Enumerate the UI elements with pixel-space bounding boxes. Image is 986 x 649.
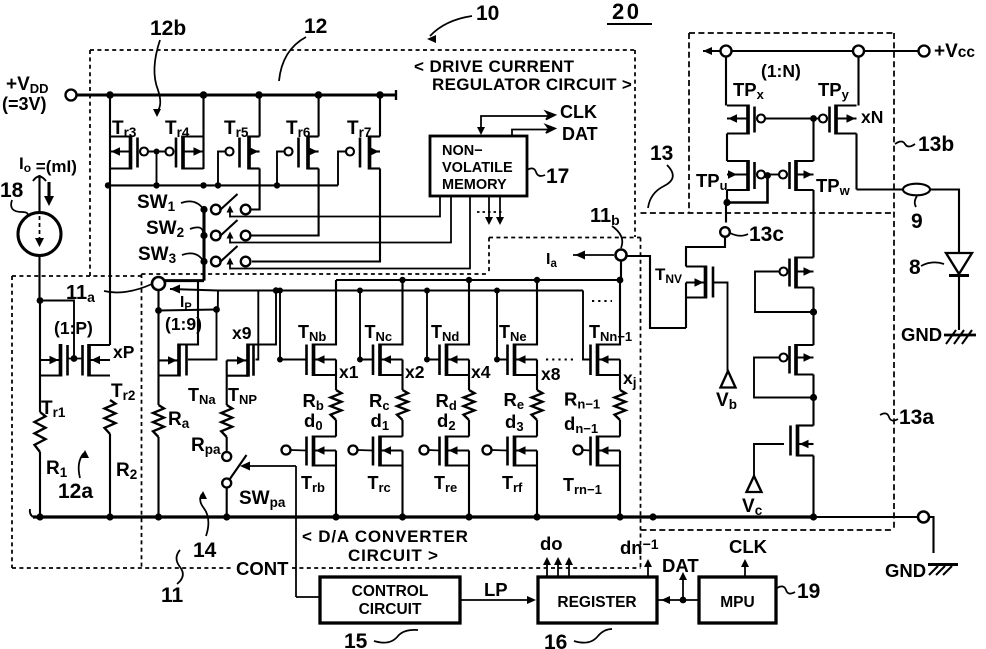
svg-text:11: 11 [161,584,184,607]
wire diode to ground [958,277,960,330]
svg-text:dn−1: dn−1 [564,413,598,436]
wire R2 to bus [109,434,111,517]
svg-text:dn−1: dn−1 [620,536,659,558]
wire to ground [929,517,934,553]
svg-text:Trn−1: Trn−1 [563,475,602,497]
element 9 oval [903,184,930,196]
wire TNe source lead [536,360,538,391]
svg-text:x2: x2 [405,362,425,382]
dashed box 14 D/A converter outline [142,273,490,275]
wire 11b to TNV branch [627,256,687,328]
svg-text:CIRCUIT: CIRCUIT [359,601,422,618]
wire TPu diode connection [727,176,768,203]
terminal +Vcc [919,46,930,57]
svg-text:xj: xj [623,368,637,390]
switch SW2 [200,220,250,244]
wire switch output bus to node 11a [202,210,205,281]
svg-text:x1: x1 [339,362,359,382]
resistor R2 [105,400,116,434]
wire Ra to bus [157,437,159,517]
svg-text:14: 14 [193,539,217,562]
resistor Rc [397,390,408,420]
wire Tre to bus [468,451,470,518]
wire CLK from MPU [744,562,746,577]
wire Re to Trf [536,420,538,437]
wire A to B [812,288,814,346]
wire TNa drain riser [179,281,198,345]
wire C gate to Vc [754,444,784,477]
svg-text:16: 16 [544,631,567,649]
MPU box 19 [699,577,776,623]
wire Tr6 drain to switch [250,169,318,236]
transistor Trc [373,436,403,467]
svg-text:REGISTER: REGISTER [557,594,636,611]
wire Rc to Trc [401,420,403,437]
wire Tr5 drain to switch [250,169,259,210]
wire Tr5 source riser [259,95,261,137]
svg-text:TNe: TNe [499,322,527,344]
wire SW2 control line [230,196,451,243]
control circuit box 15 [320,577,460,623]
wire Rb to Trb [335,420,337,437]
resistor R1 [35,412,46,452]
wire B to C [812,375,814,426]
wire Trc to bus [401,451,403,518]
node Vcc left [721,46,732,57]
ground symbol bottom right [928,563,958,566]
wire Tr6 gate to rail [277,152,285,186]
svg-text:< DRIVE CURRENT: < DRIVE CURRENT [414,57,575,76]
transistor cascode B [780,344,814,376]
wire Rn to Trn-1 [619,420,621,437]
wire 11a to Ra [157,311,159,405]
svg-text:11b: 11b [590,205,620,228]
input terminal dn1 [574,446,583,455]
dashed box 11 outline [12,275,142,277]
wire CLK into memory [481,116,549,133]
resistor Rn-1 [615,390,626,420]
switch SW3 [200,246,250,270]
wire TNn-1 source lead [619,360,621,391]
wire TNe drain stub [515,280,538,345]
wire Vcc rail [703,50,919,52]
dashed box 12 drive current regulator [90,49,635,51]
wire Tr3 source riser [109,95,111,137]
svg-text:TNb: TNb [298,322,326,344]
wire oval to diode [930,190,959,254]
wire Tr6 source riser [318,95,320,137]
wire D/A drain bus [336,279,621,281]
svg-text:15: 15 [344,630,368,649]
svg-text:Vc: Vc [742,496,763,518]
dashed box 13b [689,32,894,34]
wire current source bottom lead [38,256,40,301]
wire Trb to bus [335,451,337,518]
wire Ip arrow [170,289,218,291]
svg-text:SW2: SW2 [146,218,184,240]
svg-text:x8: x8 [541,364,561,384]
wire TNV source left [685,283,687,329]
svg-text:R2: R2 [116,460,137,482]
wire bias line to D/A gates [217,291,219,310]
wire register to MPU [657,599,699,601]
arrow current direction [47,182,50,198]
bias input Vb [721,371,736,388]
wire TPx riser [725,57,727,106]
resistor Rpa [221,405,232,437]
wire TNV gate to Vb [713,283,728,373]
ground symbol top right [944,334,976,337]
non-volatile memory box 17 [430,136,527,196]
svg-text:10: 10 [476,2,499,25]
wire 13c to TNV [686,237,725,267]
wire B gate loop [754,358,814,398]
svg-text:SW3: SW3 [138,244,177,266]
wire TNn-1 drain stub [598,280,621,345]
wire TNn-1 gate riser [583,291,591,360]
wire CONT [296,596,320,598]
wire TNc gate riser [360,291,373,360]
label 13b [895,142,915,147]
switch SWpa [226,437,228,452]
wire TNd drain stub [447,280,470,345]
wire Ia arrow [573,254,614,256]
wire Tr1 Tr2 gate tie [37,297,44,304]
wire SW1 control line [230,196,440,217]
svg-text:(=3V): (=3V) [2,94,47,114]
wire Trf to bus [536,451,538,518]
svg-text:< D/A CONVERTER: < D/A CONVERTER [302,527,469,546]
svg-text:CLK: CLK [729,536,768,557]
svg-text:Rn−1: Rn−1 [564,389,600,412]
svg-text:Tr2: Tr2 [111,381,135,403]
transistor Trn-1 [591,436,621,467]
svg-text:9: 9 [911,210,923,233]
svg-text:17: 17 [546,165,569,188]
svg-text:Rpa: Rpa [191,435,221,457]
wire TPy riser [857,57,859,106]
wire TNd source lead [468,360,470,391]
svg-text:Ia: Ia [546,251,557,270]
node 11b [616,250,627,261]
svg-text:13: 13 [650,142,673,165]
wire TPy drain to oval [857,188,947,190]
wire VDD rail [77,93,397,96]
svg-text:18: 18 [0,179,24,202]
svg-text:13a: 13a [899,406,934,429]
svg-text:Trf: Trf [502,473,523,495]
wire LP [460,599,533,601]
svg-text:(1:P): (1:P) [54,318,93,338]
node 11a [152,277,165,290]
svg-text:(1:N): (1:N) [761,61,801,81]
wire 11a down [157,290,159,311]
svg-text:20: 20 [612,0,641,24]
svg-text:8: 8 [909,256,921,279]
svg-text:x4: x4 [471,362,491,382]
transistor Tre [440,436,470,467]
svg-text:13c: 13c [749,223,784,246]
svg-text:12a: 12a [58,480,93,503]
wire Tr1 lead [39,301,41,413]
svg-text:11a: 11a [66,282,95,305]
wire TNb gate riser [280,291,307,360]
svg-text:Ra: Ra [168,409,190,431]
svg-text:+VDD: +VDD [6,74,49,96]
svg-text:CLK: CLK [560,102,597,122]
svg-text:Tr5: Tr5 [224,118,249,140]
wire TNb drain stub [314,280,337,345]
diode 8 [946,253,972,274]
wire TPu source down to 13c [726,190,728,203]
register output arrows d0 [546,560,548,577]
svg-text:CONT: CONT [236,558,289,579]
svg-text:DAT: DAT [562,124,598,144]
dashed box 13a [641,212,895,214]
svg-text:DAT: DAT [662,555,699,576]
svg-text:d2: d2 [437,410,456,433]
svg-text:VOLATILE: VOLATILE [442,160,513,176]
svg-text:CIRCUIT >: CIRCUIT > [348,546,439,565]
register box 16 [538,577,657,623]
svg-text:Io =(mI): Io =(mI) [19,154,77,176]
resistor Ra [153,405,164,437]
wire C to bus [812,456,814,518]
memory output arrows [488,196,490,220]
register output dn-1 [647,562,649,577]
wire DAT to register bus [682,577,684,600]
wire SW3 control line [230,196,470,269]
wire TPw down [812,190,814,258]
node 13c [720,227,730,237]
input terminal d1 [349,446,358,455]
svg-text:TPy: TPy [818,79,850,102]
wire TNd gate riser [427,291,440,360]
svg-text:MPU: MPU [720,594,754,611]
svg-text:MEMORY: MEMORY [442,177,507,193]
wire TNP source to Rpa [226,360,228,405]
svg-text:R1: R1 [46,458,68,480]
svg-text:GND: GND [901,324,942,345]
wire Rd to Tre [468,420,470,437]
wire TNP drain riser [248,291,276,345]
input terminal d2 [420,446,429,455]
svg-text:xN: xN [861,107,883,127]
terminal +VDD [66,90,77,101]
svg-text:(1:9): (1:9) [165,314,202,334]
svg-text:LP: LP [484,579,508,600]
wire TNc drain stub [380,280,403,345]
svg-text:GND: GND [885,560,926,581]
svg-text:d3: d3 [505,411,524,434]
input terminal d3 [483,446,492,455]
svg-text:REGULATOR CIRCUIT >: REGULATOR CIRCUIT > [432,75,632,94]
svg-text:TPx: TPx [733,79,765,102]
svg-text:TNc: TNc [365,322,393,344]
wire TNb source lead [335,360,337,391]
wire Tr7 drain to switch [252,169,380,262]
wire Tr3 Tr4 gate tie [148,151,166,153]
transistor Trb [307,436,337,467]
svg-text:TPw: TPw [816,175,851,198]
wire TPx TPy gate tie [765,118,819,120]
wire TPw drain riser [812,119,814,162]
wire Trn-1 to bus [619,451,621,518]
input terminal d0 [282,446,291,455]
svg-text:Tre: Tre [434,473,457,495]
svg-text:TNa: TNa [188,385,216,407]
wire current source top lead [38,175,40,212]
wire Tr7 source riser [379,95,381,137]
ellipsis between cells [546,358,573,360]
resistor Re [532,390,543,420]
svg-text:Re: Re [504,389,525,412]
label 9 [915,196,917,207]
wire Tr4 source riser [202,95,204,137]
wire Tr5 gate to rail [218,152,226,186]
svg-text:do: do [540,533,563,554]
wire TNa gate [155,307,162,314]
transistor cascode C [791,425,814,457]
transistor Trf [508,436,538,467]
svg-text:TPu: TPu [696,170,728,193]
svg-text:TNV: TNV [655,265,682,286]
wire SWpa control arrow [248,465,296,467]
svg-text:SW1: SW1 [137,192,176,214]
wire A gate loop [755,272,814,313]
wire TNc source lead [401,360,403,391]
svg-text:CONTROL: CONTROL [352,583,429,600]
wire TNe gate riser [497,291,508,360]
svg-text:d1: d1 [371,410,390,433]
svg-text:Vb: Vb [716,390,737,412]
svg-text:TNP: TNP [228,385,257,407]
wire TPu TPw gate tie [765,174,779,176]
transistor cascode A [780,257,814,289]
current source 18 circle [18,213,61,256]
wire gate rail [108,184,338,186]
switch SW1 [200,194,250,218]
label 19 [777,586,795,593]
svg-text:12b: 12b [150,17,186,40]
svg-text:Trb: Trb [301,473,325,495]
svg-text:xP: xP [113,342,135,362]
svg-text:TNd: TNd [431,322,459,344]
wire Tr3 lead down to Tr2 drain [109,185,111,345]
label 13c [730,233,748,236]
wire DAT into memory [512,130,549,137]
node Vcc right [853,46,864,57]
svg-text:12: 12 [304,15,327,38]
label 13a [880,413,898,420]
wire R1 to bus [39,452,41,517]
svg-text:TNn−1: TNn−1 [589,322,632,344]
svg-text:SWpa: SWpa [239,488,286,510]
svg-text:x9: x9 [232,323,252,343]
wire TNP gate riser [256,291,259,360]
wire Tr7 gate to rail [338,152,346,186]
svg-text:+Vcc: +Vcc [934,41,975,62]
resistor Rd [464,390,475,420]
svg-text:NON−: NON− [442,143,483,159]
wire SWpa to bus [226,488,228,518]
wire ground bus [33,515,814,518]
svg-text:19: 19 [797,580,820,603]
terminal bus right [918,512,929,523]
resistor Rb [331,390,342,420]
svg-text:Trc: Trc [368,473,391,495]
svg-text:d0: d0 [304,410,323,433]
svg-text:13b: 13b [918,133,954,156]
wire 11b down to D/A bus [620,261,622,281]
bias input Vc [747,476,762,492]
label 17 [527,168,545,176]
